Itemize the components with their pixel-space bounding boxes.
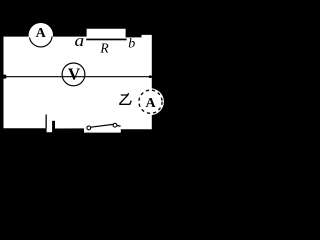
svg-text:a: a (75, 31, 85, 50)
battery short thick plate (52, 121, 55, 129)
svg-text:R: R (99, 40, 109, 55)
ammeter A1 ring arc (visible below top wire) (30, 36, 53, 47)
junction right (149, 75, 152, 78)
switch stub wire (117, 125, 121, 128)
ammeter A1 white disc bump above top wire (29, 23, 53, 47)
background canvas (0, 0, 175, 161)
svg-text:b: b (128, 36, 135, 51)
voltmeter wire through ring (63, 76, 85, 78)
switch lever (91, 124, 113, 127)
ammeter A2 white halo disc (right side) (137, 88, 164, 115)
voltmeter ring (62, 63, 85, 86)
voltmeter branch wire (4, 76, 152, 78)
battery long plate (46, 115, 47, 129)
switch terminal circle right (113, 123, 117, 127)
white figure region (outer wires form its boundary) (4, 29, 152, 133)
resistor R body bottom bar (86, 39, 126, 41)
label 乙 (meter B) (120, 93, 131, 104)
junction left (3, 75, 7, 79)
svg-text:A: A (146, 96, 157, 111)
ammeter A2 dashed ring (139, 90, 162, 113)
svg-text:A: A (36, 26, 47, 41)
svg-text:V: V (68, 65, 81, 84)
switch pivot circle left (87, 126, 91, 130)
